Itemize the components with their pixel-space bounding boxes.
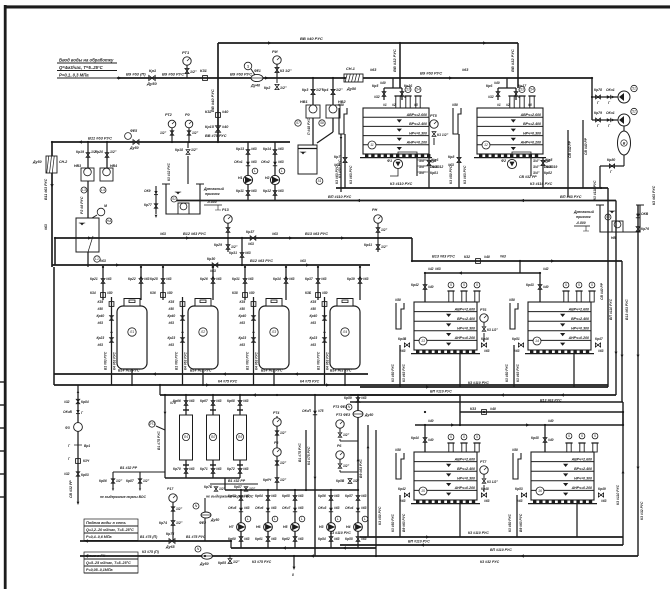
svg-text:Кр72: Кр72 xyxy=(227,467,235,471)
drain stub arrow down xyxy=(292,556,295,577)
pipe eductor feed riser x592 xyxy=(591,78,593,120)
svg-text:#63: #63 xyxy=(601,499,607,503)
tank Л3 side valve column xyxy=(239,297,259,385)
svg-text:#42: #42 xyxy=(543,267,549,271)
filter vessel 15 xyxy=(411,452,480,504)
svg-text:#63: #63 xyxy=(251,160,257,164)
svg-text:РТ7: РТ7 xyxy=(480,460,487,464)
pipe K3 #110 RUS y188 xyxy=(336,182,608,188)
svg-text:АНРч=0.200: АНРч=0.200 xyxy=(520,141,541,145)
svg-text:#50: #50 xyxy=(249,291,255,295)
svg-text:ОК9: ОК9 xyxy=(144,189,151,193)
svg-text:Кр68: Кр68 xyxy=(227,399,235,403)
pipe vessel13-14 feed y273 xyxy=(425,260,540,275)
svg-text:L: L xyxy=(247,517,249,521)
svg-text:СВ #32 РР: СВ #32 РР xyxy=(69,480,73,498)
svg-text:#63: #63 xyxy=(244,506,250,510)
svg-text:Л4: Л4 xyxy=(342,330,347,334)
svg-text:Кр22: Кр22 xyxy=(128,277,136,281)
label K3 #63 RUS right edge xyxy=(652,185,656,205)
svg-text:51: 51 xyxy=(632,87,636,91)
svg-text:К3 #63 РУС: К3 #63 РУС xyxy=(652,185,656,205)
svg-text:#63: #63 xyxy=(370,68,377,72)
svg-text:Кр23: Кр23 xyxy=(168,336,176,340)
svg-text:К3 #50 РУС: К3 #50 РУС xyxy=(391,364,395,382)
feed riser x358 valve Kr59 xyxy=(344,395,367,490)
svg-text:ВВ #40 РУС: ВВ #40 РУС xyxy=(300,36,323,41)
svg-text:Ф3: Ф3 xyxy=(238,435,243,439)
svg-text:1/2": 1/2" xyxy=(280,461,287,465)
svg-text:Р13: Р13 xyxy=(222,208,230,212)
svg-text:#63: #63 xyxy=(169,343,175,347)
gauge PT1 xyxy=(182,50,197,78)
inlet note table xyxy=(57,58,117,79)
bypass branch V1 #32 RR left xyxy=(99,466,165,499)
instrument column PT4 R8 xyxy=(263,411,287,490)
svg-text:Кр70: Кр70 xyxy=(173,467,181,471)
svg-text:Кр7: Кр7 xyxy=(334,155,341,159)
pump column Н4 xyxy=(345,490,368,548)
svg-text:ВП #110 РУС: ВП #110 РУС xyxy=(609,298,613,320)
svg-text:Кр77: Кр77 xyxy=(144,203,152,207)
arrow inlet xyxy=(118,76,122,79)
label FEZ PT3 xyxy=(333,405,348,409)
UV filter Ф1 xyxy=(180,415,193,460)
svg-text:В1 #75 РУС: В1 #75 РУС xyxy=(186,535,206,539)
svg-text:#63: #63 xyxy=(189,399,195,403)
left feeder vertical x376 xyxy=(376,430,382,556)
storage tank Л3 xyxy=(259,299,289,370)
svg-text:ВРч=2.400: ВРч=2.400 xyxy=(457,317,475,321)
svg-text:Вр1: Вр1 xyxy=(84,444,90,448)
svg-text:Кр63: Кр63 xyxy=(228,494,236,498)
svg-text:В13 #63 РУС: В13 #63 РУС xyxy=(305,232,328,236)
storage tank Л4 xyxy=(330,299,360,370)
svg-text:Кр11: Кр11 xyxy=(236,189,244,193)
left jog x55 xyxy=(54,238,56,265)
svg-text:СН-2: СН-2 xyxy=(59,160,67,164)
svg-text:Кр40: Кр40 xyxy=(310,314,318,318)
svg-text:51: 51 xyxy=(318,179,322,183)
svg-text:К4 #75 РУС: К4 #75 РУС xyxy=(218,380,238,384)
svg-text:СВ #32 РР: СВ #32 РР xyxy=(519,175,537,179)
svg-text:#63: #63 xyxy=(106,277,112,281)
svg-text:В9 #63 РУС: В9 #63 РУС xyxy=(519,513,523,532)
svg-text:Кр8: Кр8 xyxy=(448,155,454,159)
tank feed riser Кр31 x245 xyxy=(232,267,255,300)
svg-text:1/2": 1/2" xyxy=(280,431,287,435)
svg-text:Кр30: Кр30 xyxy=(207,257,215,261)
svg-text:Кр5: Кр5 xyxy=(372,84,378,88)
svg-text:ФЕ2: ФЕ2 xyxy=(199,521,206,525)
check OKchP on riser x315 xyxy=(302,395,324,430)
svg-text:не выдержание нормы ВОС: не выдержание нормы ВОС xyxy=(100,495,146,499)
right bottom corner link xyxy=(0,0,1,1)
svg-text:Р=0,4..0,6 МПа: Р=0,4..0,6 МПа xyxy=(86,535,112,539)
svg-text:В: В xyxy=(623,141,626,145)
tank feed riser Кр37 x318 xyxy=(305,267,328,300)
svg-text:Кр25: Кр25 xyxy=(150,277,158,281)
svg-text:АНРч=0.200: АНРч=0.200 xyxy=(454,336,475,340)
UV filter Ф3 feed valve Кр68 xyxy=(227,395,249,415)
svg-text:1/2": 1/2" xyxy=(160,131,167,135)
svg-text:Кр37: Кр37 xyxy=(305,277,313,281)
svg-text:К35: К35 xyxy=(98,300,104,304)
pipe B9 inlet header y78 xyxy=(117,77,592,79)
svg-text:ВП #110 РУС: ВП #110 РУС xyxy=(430,390,452,394)
svg-text:ВРч=2.400: ВРч=2.400 xyxy=(409,122,427,126)
svg-text:#63: #63 xyxy=(240,343,246,347)
svg-text:Н3: Н3 xyxy=(319,525,324,529)
vessel 15 top nozzle circles xyxy=(447,434,480,452)
svg-text:Р=0,05..0,1МПа: Р=0,05..0,1МПа xyxy=(86,568,113,572)
svg-text:ВВ #32 РУС: ВВ #32 РУС xyxy=(392,49,397,72)
svg-text:К38: К38 xyxy=(232,291,238,295)
valve Kr15 #40 xyxy=(205,125,229,132)
svg-text:L: L xyxy=(301,517,303,521)
tank feed riser Кр39 x360 xyxy=(347,267,369,300)
svg-text:ОКч1: ОКч1 xyxy=(606,111,615,115)
right vertical x608 xyxy=(600,188,608,387)
gauge P9 xyxy=(185,113,199,142)
svg-text:ВРч=2.400: ВРч=2.400 xyxy=(457,467,475,471)
svg-text:Ø1.К312: Ø1.К312 xyxy=(430,165,443,169)
svg-text:Кр31: Кр31 xyxy=(232,277,240,281)
svg-text:К4 #63 РУС: К4 #63 РУС xyxy=(255,352,259,370)
svg-text:#63: #63 xyxy=(216,399,222,403)
vessel 12 top nozzles xyxy=(497,87,536,115)
svg-text:Р=0,1..0,3 МПа: Р=0,1..0,3 МПа xyxy=(59,73,89,78)
vessel 15 standpipe xyxy=(395,448,404,479)
vessel 14 top nozzle circles xyxy=(562,282,595,302)
svg-text:ВП #110 РУС: ВП #110 РУС xyxy=(408,540,430,544)
vessel 15 drain risers xyxy=(391,495,460,537)
pipe V1 outlet y541 xyxy=(80,535,231,543)
right vertical x616 xyxy=(609,201,617,396)
vessel 12 drain labels 3/4 xyxy=(531,158,557,176)
svg-text:Кр76: Кр76 xyxy=(641,227,649,231)
svg-text:L3: L3 xyxy=(82,188,86,192)
vessel 16 top nozzle circles xyxy=(565,433,598,452)
svg-text:Ду50: Ду50 xyxy=(210,518,219,522)
svg-text:Дренажный: Дренажный xyxy=(573,210,595,214)
svg-text:Кр1: Кр1 xyxy=(149,68,157,73)
svg-text:НРч=0.300: НРч=0.300 xyxy=(457,327,475,331)
svg-text:В14 #63 РУС: В14 #63 РУС xyxy=(330,369,352,373)
side column SV32 Kr84 F3 Vr1 xyxy=(63,385,90,505)
svg-text:1/2": 1/2" xyxy=(280,478,287,482)
branch Kr3 heater NV1 xyxy=(295,78,323,145)
arrow top header 2 xyxy=(483,41,487,44)
svg-text:3/4": 3/4" xyxy=(419,171,426,175)
svg-text:В1 #75 РУС: В1 #75 РУС xyxy=(298,443,302,462)
svg-text:51: 51 xyxy=(172,197,176,201)
svg-text:Кр2: Кр2 xyxy=(264,86,270,90)
svg-text:16: 16 xyxy=(538,489,542,493)
svg-text:1/2": 1/2" xyxy=(343,464,350,468)
svg-text:Кр53: Кр53 xyxy=(515,487,523,491)
svg-text:К3 #110 РУС: К3 #110 РУС xyxy=(468,381,489,385)
tank risers to V14 xyxy=(131,369,346,386)
svg-text:К36: К36 xyxy=(150,291,156,295)
svg-text:Кр83: Кр83 xyxy=(81,473,89,477)
svg-text:Л2: Л2 xyxy=(200,330,205,334)
svg-text:АВРч=2.600: АВРч=2.600 xyxy=(454,457,475,461)
svg-text:5: 5 xyxy=(568,434,570,438)
valve K31 xyxy=(200,68,208,80)
pipe vessel15-16 feed y425 xyxy=(415,412,623,427)
svg-text:К3 #63 РУС: К3 #63 РУС xyxy=(349,165,353,184)
svg-text:#63: #63 xyxy=(298,506,304,510)
svg-text:1/2": 1/2" xyxy=(353,479,360,483)
right vertical x622 B13 xyxy=(621,261,629,402)
svg-text:1/2": 1/2" xyxy=(336,88,343,92)
svg-text:1/2": 1/2" xyxy=(381,228,388,232)
svg-text:#63: #63 xyxy=(216,467,222,471)
svg-text:В9 #63 РУС: В9 #63 РУС xyxy=(359,459,363,478)
svg-text:Кр14: Кр14 xyxy=(263,147,271,151)
svg-text:12: 12 xyxy=(484,143,488,147)
svg-text:5: 5 xyxy=(591,283,593,287)
svg-text:#63: #63 xyxy=(311,321,317,325)
svg-text:#63: #63 xyxy=(334,537,340,541)
svg-text:К35: К35 xyxy=(240,300,246,304)
valve Kr19 heater NV3 xyxy=(74,142,98,218)
svg-text:#63: #63 xyxy=(98,321,104,325)
svg-text:К3 #110 РУС: К3 #110 РУС xyxy=(530,182,553,186)
svg-text:#63: #63 xyxy=(514,349,520,353)
svg-text:#63: #63 xyxy=(361,506,367,510)
svg-text:Q=5..25 м3/час, Т=5..25°С: Q=5..25 м3/час, Т=5..25°С xyxy=(86,561,131,565)
svg-text:ОКч4: ОКч4 xyxy=(345,506,354,510)
strainer CN-1 Du50 xyxy=(344,67,363,91)
svg-text:В1 #32 РР: В1 #32 РР xyxy=(120,466,138,470)
pipe VV top header y43 xyxy=(218,36,518,43)
svg-text:5: 5 xyxy=(565,283,567,287)
svg-text:#2: #2 xyxy=(506,103,510,107)
svg-text:#40: #40 xyxy=(548,419,554,423)
svg-text:#40: #40 xyxy=(490,407,496,411)
svg-text:НВ3: НВ3 xyxy=(74,164,81,168)
svg-text:АНРч=0.200: АНРч=0.200 xyxy=(454,486,475,490)
drain trap F1 xyxy=(387,152,417,176)
svg-text:ОКчВ: ОКчВ xyxy=(63,410,73,414)
svg-text:АНРч=0.200: АНРч=0.200 xyxy=(571,486,592,490)
flow element FE1 Du40 xyxy=(244,62,263,87)
drain pit left xyxy=(162,163,204,214)
svg-text:5: 5 xyxy=(476,435,478,439)
valve Kr18 xyxy=(175,142,198,184)
svg-text:Дренажный: Дренажный xyxy=(203,187,225,191)
svg-text:#63: #63 xyxy=(248,277,254,281)
branch Kr4 heater NV2 xyxy=(317,78,346,143)
svg-text:#63: #63 xyxy=(271,494,277,498)
svg-text:Р2 #8 РУС: Р2 #8 РУС xyxy=(80,196,84,214)
svg-text:РИ: РИ xyxy=(272,49,278,54)
svg-text:14: 14 xyxy=(535,339,539,343)
valve Kr2 xyxy=(264,78,287,90)
svg-text:ВП #110 РУС: ВП #110 РУС xyxy=(490,548,512,552)
svg-text:#32: #32 xyxy=(374,95,380,99)
svg-text:ОКч3: ОКч3 xyxy=(318,506,327,510)
svg-text:СВ #40 РР: СВ #40 РР xyxy=(600,282,604,300)
valve Kr1 Du50 xyxy=(146,68,157,86)
svg-text:Кр19: Кр19 xyxy=(76,150,84,154)
svg-text:3/4": 3/4" xyxy=(533,171,540,175)
svg-text:#63: #63 xyxy=(166,277,172,281)
svg-text:ФЕ1: ФЕ1 xyxy=(254,69,261,73)
svg-text:В1 #63 РУС: В1 #63 РУС xyxy=(317,351,321,370)
flow meter FE4 Du50 xyxy=(195,546,213,566)
flow meter FE2 on riser xyxy=(193,498,219,541)
arrow B9 right xyxy=(449,76,453,79)
svg-text:НВ1: НВ1 xyxy=(300,100,308,104)
svg-text:L: L xyxy=(337,517,339,521)
svg-text:#63: #63 xyxy=(462,68,469,72)
svg-text:ФЕ5: ФЕ5 xyxy=(130,129,137,133)
svg-text:Ду50: Ду50 xyxy=(146,81,157,86)
svg-text:К3 #110 РУС: К3 #110 РУС xyxy=(468,531,489,535)
svg-text:К3 #50 РУС: К3 #50 РУС xyxy=(449,165,453,184)
svg-text:В13 #63 РУС: В13 #63 РУС xyxy=(625,299,629,320)
svg-text:#75: #75 xyxy=(170,401,176,405)
svg-text:Кр39: Кр39 xyxy=(347,277,355,281)
tank feed riser Кр26 x213 xyxy=(200,267,222,300)
svg-text:#40: #40 xyxy=(222,125,229,129)
svg-text:К35: К35 xyxy=(169,300,175,304)
storage tank Л2 xyxy=(188,299,218,370)
gauge PI with valve K3 xyxy=(272,49,292,78)
svg-text:СН-1: СН-1 xyxy=(346,67,355,71)
left rail x54 xyxy=(53,267,55,385)
svg-text:К34: К34 xyxy=(90,291,96,295)
svg-text:#40: #40 xyxy=(380,81,386,85)
svg-text:5: 5 xyxy=(463,283,465,287)
svg-text:#50: #50 xyxy=(395,448,401,452)
svg-text:Кр46: Кр46 xyxy=(481,337,489,341)
svg-text:К3 #63 РУС: К3 #63 РУС xyxy=(516,364,520,382)
svg-text:Кр21: Кр21 xyxy=(90,277,98,281)
svg-text:#63: #63 xyxy=(298,537,304,541)
svg-text:К3 #63 РУС: К3 #63 РУС xyxy=(402,364,406,382)
pipe K3 #110 y387 xyxy=(360,381,608,389)
svg-text:К31: К31 xyxy=(200,68,208,73)
drain trap F2 xyxy=(501,152,537,179)
pipe VV #32 riser x518 xyxy=(510,43,519,88)
svg-text:Н4: Н4 xyxy=(346,525,351,529)
label B9 #63 RUS mid xyxy=(230,72,252,77)
vessel 12 drain risers xyxy=(449,165,543,188)
svg-text:#50: #50 xyxy=(107,291,113,295)
svg-text:#63: #63 xyxy=(334,494,340,498)
vessel 14 standpipe xyxy=(509,298,518,329)
svg-text:#50: #50 xyxy=(169,307,175,311)
pipe SV risers right of vessel 12 xyxy=(568,120,588,197)
svg-text:М: М xyxy=(104,204,107,208)
svg-text:В1 #75 (П): В1 #75 (П) xyxy=(140,535,158,539)
svg-text:#40: #40 xyxy=(548,438,554,442)
svg-text:Кр54: Кр54 xyxy=(318,537,326,541)
svg-text:Кр64: Кр64 xyxy=(255,494,263,498)
svg-text:Р17: Р17 xyxy=(167,487,174,491)
instrument column PT3 R6 xyxy=(336,420,360,484)
svg-text:Кр80: Кр80 xyxy=(607,158,615,162)
tank Л1 side valve column xyxy=(97,297,117,385)
svg-text:#63: #63 xyxy=(271,506,277,510)
svg-text:#40: #40 xyxy=(222,110,229,114)
filter vessel 14 xyxy=(525,302,594,354)
svg-text:#63: #63 xyxy=(144,277,150,281)
filter vessel 16 xyxy=(528,452,597,504)
svg-text:Кр40: Кр40 xyxy=(239,314,247,318)
svg-text:3/4": 3/4" xyxy=(419,159,426,163)
svg-text:53: 53 xyxy=(520,88,524,92)
svg-text:#63: #63 xyxy=(251,189,257,193)
valve K32 #40 xyxy=(205,110,229,117)
svg-text:Ду2: Ду2 xyxy=(543,159,550,163)
svg-text:АВРч=2.600: АВРч=2.600 xyxy=(520,113,541,117)
svg-text:#63: #63 xyxy=(248,242,254,246)
pump column N2 xyxy=(261,142,285,201)
svg-text:#2: #2 xyxy=(392,103,396,107)
svg-text:#50: #50 xyxy=(512,448,518,452)
svg-text:1/2": 1/2" xyxy=(176,521,183,525)
gauge PT2 xyxy=(160,113,176,142)
svg-text:#63: #63 xyxy=(216,277,222,281)
svg-text:Подача воды в сеть: Подача воды в сеть xyxy=(86,520,127,525)
svg-text:ВРч=2.400: ВРч=2.400 xyxy=(574,467,592,471)
svg-text:К4 #63 РУС: К4 #63 РУС xyxy=(113,352,117,370)
svg-text:#50: #50 xyxy=(509,298,515,302)
svg-text:Кр42: Кр42 xyxy=(398,487,406,491)
svg-text:АВРч=2.600: АВРч=2.600 xyxy=(568,307,589,311)
svg-text:13: 13 xyxy=(421,339,425,343)
svg-text:Кр18: Кр18 xyxy=(175,148,183,152)
filter vessel 12 xyxy=(474,108,546,158)
svg-text:ВВ #75 РУС: ВВ #75 РУС xyxy=(205,134,227,138)
svg-text:РТ2: РТ2 xyxy=(165,113,173,117)
pipe K4 #75 header y385 xyxy=(54,380,608,387)
drop leg Kr31 xyxy=(229,238,251,265)
svg-text:Ду50: Ду50 xyxy=(32,160,42,164)
svg-text:#40: #40 xyxy=(428,438,434,442)
svg-text:ОКч6: ОКч6 xyxy=(255,506,264,510)
svg-text:Ду65: Ду65 xyxy=(165,545,175,549)
svg-text:Р8: Р8 xyxy=(274,441,278,445)
svg-text:АНРч=0.200: АНРч=0.200 xyxy=(406,141,427,145)
vessel 16 side valves Kr53 Kr49 xyxy=(515,487,607,503)
valve Kr29 under header xyxy=(214,238,238,252)
svg-text:Кр13: Кр13 xyxy=(236,147,244,151)
svg-text:#63: #63 xyxy=(278,147,284,151)
pipe VP #110 y545 xyxy=(340,540,623,553)
pipe K3 #110 y537 xyxy=(330,531,623,539)
riser x314 xyxy=(307,430,316,556)
svg-text:#63: #63 xyxy=(363,277,369,281)
gauge PN above header right xyxy=(364,208,388,252)
svg-text:5: 5 xyxy=(578,283,580,287)
svg-text:СВ #40 РР: СВ #40 РР xyxy=(584,137,588,155)
svg-text:#5: #5 xyxy=(414,103,418,107)
svg-text:5: 5 xyxy=(581,434,583,438)
svg-text:Кр67: Кр67 xyxy=(200,399,208,403)
svg-text:К3Ч: К3Ч xyxy=(83,459,90,463)
svg-text:Кр71: Кр71 xyxy=(200,467,208,471)
svg-text:L: L xyxy=(254,169,256,173)
vessel 11 drain labels 3/4 xyxy=(417,158,443,176)
svg-text:#40: #40 xyxy=(428,285,434,289)
pipe V12 header y265 xyxy=(52,259,370,267)
